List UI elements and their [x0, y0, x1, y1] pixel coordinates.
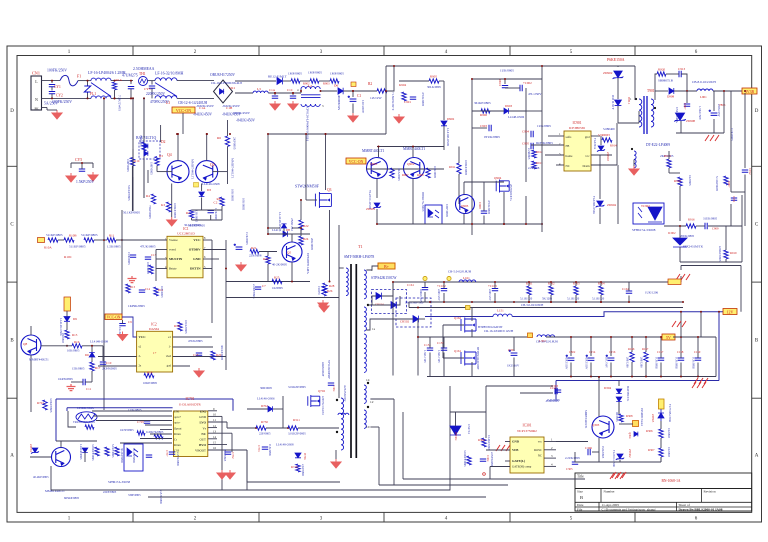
wire c909 right	[708, 225, 742, 227]
wire band link y265	[681, 265, 741, 267]
wire C158 up stub	[680, 337, 682, 358]
svg-text:GND: GND	[512, 440, 520, 444]
svg-text:C30x: C30x	[486, 455, 490, 462]
diode D902	[441, 121, 447, 126]
svg-text:MMBT440LT1: MMBT440LT1	[29, 358, 49, 362]
svg-text:CY5: CY5	[75, 158, 82, 162]
wire Q4 collector up	[177, 134, 179, 161]
resistor R18	[178, 322, 182, 331]
transistor Q8	[21, 335, 41, 355]
wire rectified rail top	[235, 80, 276, 82]
junction C158 bot	[680, 376, 682, 378]
wire IC701 top blue bus	[56, 398, 233, 400]
wire primary return rail y224	[377, 223, 542, 225]
resistor R10B	[64, 238, 74, 242]
wire blue bus 2 drop	[66, 408, 68, 411]
wire L to LF2	[148, 80, 156, 82]
svg-text:12: 12	[213, 424, 217, 428]
wire R6 bottom	[227, 147, 229, 172]
wire C910 stub	[504, 79, 506, 84]
wire D702 col	[282, 396, 284, 428]
junction x104 top	[103, 97, 105, 99]
inductor L161	[459, 280, 476, 282]
wire C162 dn	[443, 293, 445, 302]
junction C154 bot	[590, 376, 592, 378]
svg-text:C155: C155	[437, 341, 444, 345]
svg-text:vied: vied	[166, 354, 172, 358]
wire IC701 col to bottom	[246, 450, 248, 490]
svg-text:R701: R701	[37, 401, 44, 405]
resistor R162	[549, 286, 553, 295]
capacitor C163	[492, 289, 498, 291]
svg-text:MUR460E: MUR460E	[337, 95, 341, 110]
zone row tick left	[7, 397, 17, 399]
svg-text:CB-5.0-02/0.8UH: CB-5.0-02/0.8UH	[448, 270, 472, 274]
wire column x226	[225, 240, 227, 370]
wire band left link	[408, 302, 410, 308]
svg-text:CR1: CR1	[229, 86, 236, 90]
junction T901 aux dot	[631, 148, 633, 150]
transformer T1 secondary winding 2	[364, 307, 366, 331]
optocoupler IC902	[633, 203, 664, 224]
wire R911 up	[458, 147, 460, 164]
svg-text:R906: R906	[480, 113, 487, 117]
junction y302 x601	[600, 301, 602, 303]
earth band corner	[676, 274, 690, 280]
wire R164 up	[600, 282, 602, 286]
wire x133 lower	[132, 177, 134, 211]
svg-text:BN-1068-1A: BN-1068-1A	[662, 479, 681, 483]
wire Q3 gate	[306, 199, 317, 201]
wire Q2 base col dn	[227, 172, 229, 184]
junction x542 top	[541, 65, 543, 67]
svg-text:1.5KU/16V: 1.5KU/16V	[423, 350, 426, 363]
wire C11 left	[71, 381, 83, 383]
capacitor C156 bank	[606, 355, 615, 361]
junction 3v3b right	[744, 90, 746, 92]
svg-text:C306: C306	[585, 446, 592, 450]
wire C9 stem	[122, 320, 124, 324]
net stub R10	[38, 238, 45, 243]
svg-text:C1A: C1A	[269, 88, 276, 92]
wire vcc rail y146	[377, 146, 444, 148]
svg-text:2KP/K0805: 2KP/K0805	[102, 367, 117, 371]
svg-text:C10: C10	[106, 361, 112, 365]
wire IC1 vossd	[156, 249, 167, 251]
svg-text:R2: R2	[368, 82, 372, 86]
wire y281 rail	[226, 281, 310, 283]
svg-text:R907: R907	[727, 181, 731, 188]
wire 5V rail	[546, 336, 662, 338]
wire R6 top	[227, 120, 229, 136]
junction bulk rail x293	[292, 92, 294, 94]
wire therm row4	[145, 424, 172, 426]
diode D3	[199, 192, 205, 196]
svg-text:L2: L2	[308, 84, 312, 88]
wire r915 up	[668, 151, 670, 159]
wire L2 to D6	[321, 90, 338, 92]
ground C6	[236, 262, 246, 271]
resistor R914	[602, 138, 612, 142]
svg-text:DA564: DA564	[149, 327, 159, 331]
wire x681 drop	[680, 312, 682, 337]
svg-text:16: 16	[213, 446, 217, 450]
svg-text:VCC-ON: VCC-ON	[176, 108, 191, 113]
wire R10C-R11	[94, 239, 107, 241]
ground C9	[118, 332, 128, 341]
svg-text:2.2R0808: 2.2R0808	[528, 166, 540, 170]
capacitor C302 bank	[566, 355, 575, 361]
capacitor C705	[144, 421, 150, 423]
wire Q701 base row	[30, 456, 51, 458]
svg-text:D8: D8	[286, 228, 290, 232]
svg-text:FB: FB	[566, 144, 570, 148]
wire sec band top rail	[393, 281, 681, 283]
svg-text:R919: R919	[730, 251, 737, 255]
wire IC701 pin13 col	[231, 433, 233, 452]
transistor Q903	[456, 195, 475, 214]
resistor R15	[65, 330, 69, 339]
thermistor RT701	[76, 412, 97, 422]
capacitor C7	[255, 287, 261, 289]
junction C158 top	[680, 336, 682, 338]
resistor R915	[667, 159, 671, 168]
capacitor C301	[509, 350, 518, 356]
svg-text:C164: C164	[622, 287, 629, 291]
net label 12V	[723, 309, 737, 315]
wire CY3 drop	[151, 81, 153, 85]
wire T901 pri bot	[638, 111, 640, 123]
wire L2 left pin	[300, 89, 302, 93]
wire IC1 otdrv right	[203, 249, 226, 251]
wire sec band bottom rail	[409, 301, 683, 303]
svg-text:TL7V0B-OS06: TL7V0B-OS06	[668, 404, 672, 423]
ground IC701 b	[225, 470, 235, 479]
svg-text:R905: R905	[430, 75, 437, 79]
svg-text:C15: C15	[193, 353, 199, 357]
wire r711 to mid	[298, 427, 339, 429]
svg-text:361KP/0805: 361KP/0805	[474, 101, 491, 105]
wire R17 dn	[91, 371, 93, 382]
svg-text:C908: C908	[478, 202, 482, 209]
svg-text:10K/0805: 10K/0805	[67, 349, 80, 353]
svg-text:R730: R730	[261, 420, 268, 424]
svg-text:511KP/0805: 511KP/0805	[46, 233, 63, 237]
wire x526 lower seg	[525, 196, 527, 224]
svg-text:1N4756ATA: 1N4756ATA	[675, 107, 679, 124]
wire R167 dn stub	[645, 362, 647, 377]
svg-text:C911: C911	[732, 196, 736, 203]
optocoupler IC903	[425, 205, 442, 224]
wire Q901 col	[378, 147, 380, 158]
capacitor C305	[572, 462, 578, 464]
capacitor C912	[742, 170, 748, 172]
capacitor C1C	[290, 96, 296, 98]
svg-text:R920: R920	[658, 68, 665, 72]
svg-text:C907: C907	[683, 103, 687, 110]
svg-text:330P/0805: 330P/0805	[128, 493, 141, 497]
title block col line sheet	[676, 502, 678, 511]
junction R22 gate	[300, 199, 302, 201]
wire bottom rail	[51, 489, 264, 491]
svg-text:ZD908: ZD908	[686, 119, 695, 123]
wire R2 up to top rail	[387, 66, 394, 91]
svg-text:TL231C-OS06: TL231C-OS06	[612, 450, 615, 467]
wire long vertical x526	[525, 88, 527, 182]
svg-text:4.99KP/0805: 4.99KP/0805	[718, 246, 722, 262]
wire D702 out	[273, 408, 283, 410]
capacitor C908	[481, 211, 487, 213]
wire IC701 right col b	[232, 399, 234, 411]
svg-text:1KA/0805: 1KA/0805	[397, 168, 401, 181]
svg-text:5V: 5V	[666, 335, 671, 340]
wire CR501a out	[382, 282, 394, 296]
svg-text:ZD30x: ZD30x	[454, 432, 458, 441]
zener ZD901	[373, 203, 381, 209]
svg-text:Q904: Q904	[494, 176, 502, 180]
wire IC301 left drop	[489, 467, 491, 480]
resistor R26	[322, 286, 326, 296]
wire D301 col	[618, 402, 620, 414]
junction R11 node	[121, 239, 123, 241]
connector CN1	[31, 76, 42, 110]
wire varistor RV1 drop	[87, 81, 89, 86]
svg-text:1UK/0805: 1UK/0805	[675, 357, 678, 369]
junction C159 bot	[697, 376, 699, 378]
wire C159 up stub	[697, 337, 699, 358]
wire therm row3	[96, 420, 172, 422]
svg-text:22A/0608: 22A/0608	[249, 254, 262, 258]
capacitor C14	[139, 290, 145, 292]
wire IC2 1m	[173, 346, 198, 348]
wire zd908 dn	[680, 121, 682, 133]
resistor R7	[189, 210, 193, 218]
wire IC701 pin11b col	[226, 422, 228, 428]
svg-text:IC301: IC301	[523, 424, 532, 428]
wire ic2 in row	[98, 356, 137, 358]
junction ac N x133	[132, 97, 134, 99]
wire rail y307	[409, 307, 683, 309]
svg-text:C305: C305	[566, 467, 573, 471]
svg-text:1-: 1-	[169, 345, 172, 349]
wire D3 dn	[201, 198, 203, 211]
wire D6b up	[91, 346, 93, 352]
wire 3v3 sense drop	[723, 91, 725, 133]
wire x133 upper	[132, 98, 134, 140]
wire IC901 softs	[548, 135, 564, 137]
svg-text:R914: R914	[610, 144, 617, 148]
resistor R907	[724, 176, 728, 185]
wire Q901 emitter	[376, 179, 378, 199]
svg-text:10K/0805: 10K/0805	[160, 286, 164, 298]
wire mid rail y134	[268, 133, 386, 135]
svg-text:11-Apr-2005: 11-Apr-2005	[602, 503, 620, 507]
zone column tick bottom	[383, 512, 385, 522]
zone row tick right	[752, 397, 762, 399]
junction top rail x394	[393, 65, 395, 67]
wire ic2 in row2	[98, 365, 137, 367]
title block col line size	[600, 489, 602, 503]
junction y302 x430	[429, 301, 431, 303]
wire C902 link	[505, 87, 520, 89]
junction R164 top	[600, 281, 602, 283]
svg-text:R6: R6	[217, 136, 221, 140]
svg-text:GND: GND	[193, 257, 201, 261]
wire C162 up	[443, 282, 445, 289]
resistor R1A	[112, 82, 116, 90]
svg-text:2KP0805: 2KP0805	[233, 137, 237, 150]
svg-text:1KU/16V: 1KU/16V	[605, 357, 608, 368]
wire q area bottom	[575, 461, 661, 463]
junction R163 bot	[575, 301, 577, 303]
resistor R24	[299, 236, 303, 245]
junction R166 bot	[631, 376, 633, 378]
wire N from CN1	[42, 97, 92, 99]
svg-text:EN2: EN2	[200, 410, 206, 414]
svg-text:C905: C905	[522, 142, 529, 146]
svg-text:P6KE150A: P6KE150A	[607, 58, 625, 62]
svg-text:1MF/0805: 1MF/0805	[288, 72, 302, 76]
wire R163 dn	[575, 295, 577, 302]
wire bottom rail extension	[264, 485, 450, 490]
resistor R306	[659, 429, 663, 438]
svg-text:40-2KP/0805: 40-2KP/0805	[33, 475, 49, 479]
svg-text:gad: gad	[167, 364, 172, 368]
wire r919 dn	[725, 259, 727, 262]
svg-text:R911: R911	[449, 165, 456, 169]
svg-text:PE: PE	[35, 107, 39, 111]
wire PE drop	[46, 108, 48, 111]
wire Q5 collector rail	[268, 233, 310, 235]
svg-text:vossd: vossd	[169, 248, 176, 252]
svg-text:R907: R907	[402, 173, 409, 177]
net label VCC-ON	[172, 107, 195, 113]
svg-text:STW26NM50F: STW26NM50F	[327, 360, 331, 379]
ground C1C	[288, 101, 298, 110]
wire Q3 gate vert	[305, 134, 307, 200]
svg-text:C156: C156	[609, 350, 616, 354]
zone column tick bottom	[132, 512, 134, 522]
svg-text:1UK/0805: 1UK/0805	[601, 446, 605, 459]
svg-text:R7: R7	[186, 211, 190, 215]
svg-text:GATE(H) comp: GATE(H) comp	[512, 465, 532, 469]
zone column tick top	[509, 46, 511, 56]
wire IC301 vfb left	[486, 449, 510, 451]
svg-text:D: D	[755, 109, 759, 114]
optocoupler IC702	[124, 444, 143, 471]
svg-text:Q162: Q162	[454, 316, 461, 320]
svg-text:opto-: opto-	[174, 421, 180, 425]
wire therm row1	[92, 410, 172, 412]
ground C901	[394, 114, 404, 123]
svg-text:LL4146-OS08: LL4146-OS08	[202, 182, 220, 186]
svg-text:BAV74LT1Q: BAV74LT1Q	[136, 136, 157, 140]
diode D706	[295, 453, 301, 458]
svg-text:TC902: TC902	[641, 204, 650, 208]
wire IC2 vcc feed	[122, 317, 137, 337]
zener ZD908	[674, 113, 686, 122]
svg-text:-84UK/450V: -84UK/450V	[193, 113, 212, 117]
resistor R708	[115, 447, 119, 456]
wire IC301 pin 2 right	[544, 449, 556, 451]
wire IC701 pin 15	[208, 443, 227, 445]
junction C302 top	[570, 336, 572, 338]
junction Q4 col	[177, 133, 179, 135]
wire Q5 collector up	[291, 234, 293, 242]
wire IC301 left col	[402, 412, 404, 479]
junction x681 12v	[680, 311, 682, 313]
resistor R10A	[48, 238, 58, 242]
earth 3v3 return	[705, 135, 719, 141]
zener ZD30x	[450, 426, 461, 435]
wire C302 up stub	[570, 337, 572, 356]
resistor R902	[310, 79, 319, 83]
wire IC301 pin 3 right	[544, 457, 556, 459]
transistor Q701	[52, 448, 71, 467]
wire Q4 base link	[157, 171, 172, 173]
wire C301 up	[513, 337, 515, 351]
junction x144 top	[143, 97, 145, 99]
svg-text:D702: D702	[261, 404, 268, 408]
svg-text:10.1KP/0805: 10.1KP/0805	[132, 448, 135, 463]
wire T901 sec top	[654, 91, 656, 100]
wire IC1 vsense	[122, 239, 167, 241]
wire bottom rail left up	[50, 466, 52, 490]
capacitor C154 bank	[586, 355, 595, 361]
wire x144 lower	[143, 159, 145, 198]
svg-text:R16: R16	[74, 340, 80, 344]
svg-text:D304: D304	[604, 386, 611, 390]
wire x701 drop	[700, 312, 702, 337]
svg-text:D902: D902	[447, 117, 455, 121]
junction C1 top	[352, 90, 354, 92]
net label VCC-ON q	[346, 158, 366, 164]
svg-text:13K/0805: 13K/0805	[195, 210, 199, 223]
junction R1A bot	[114, 97, 116, 99]
junction Q3 source rail	[329, 281, 331, 283]
capacitor C151	[427, 348, 433, 350]
diode CR501b	[391, 302, 396, 309]
wire q303 c row	[556, 441, 588, 443]
svg-text:LVO: LVO	[199, 421, 206, 425]
capacitor C159 bank	[695, 358, 701, 360]
wire IC701 blue bus 2	[67, 407, 173, 409]
junction y224 x377	[376, 223, 378, 225]
junction q901 col	[378, 146, 380, 148]
junction q904 y224	[503, 223, 505, 225]
svg-text:SB080T1B: SB080T1B	[658, 79, 674, 83]
svg-text:UCC28051D: UCC28051D	[177, 232, 195, 236]
transistor Q161	[461, 351, 476, 366]
wire Q3 source	[329, 210, 331, 282]
svg-text:75KP/0805: 75KP/0805	[148, 205, 152, 219]
wire IC701 pin 16	[208, 449, 247, 451]
wire 12V vert right	[718, 312, 720, 381]
svg-text:71.5KPK/96+0: 71.5KPK/96+0	[391, 92, 395, 111]
svg-text:C901: C901	[404, 100, 411, 104]
transistor Q902	[404, 158, 425, 179]
wire T1 aux left dn	[335, 450, 337, 459]
wire snub left	[655, 74, 657, 91]
resistor R164	[599, 286, 603, 295]
svg-text:C157: C157	[657, 350, 664, 354]
resistor R308	[619, 414, 623, 422]
resistor R13	[126, 284, 130, 293]
wire bank right drop	[715, 337, 717, 377]
junction rail x505	[504, 78, 506, 80]
svg-text:STPS42K150CW: STPS42K150CW	[371, 276, 397, 280]
svg-text:D6: D6	[85, 353, 89, 357]
